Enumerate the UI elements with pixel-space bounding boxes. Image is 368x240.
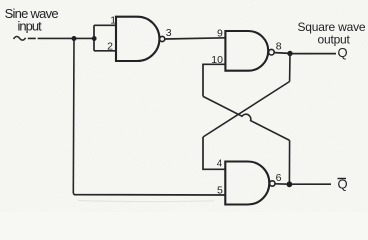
faint scan artifact line under bottom wire xyxy=(78,201,214,202)
U3 output bubble xyxy=(270,181,275,186)
NAND gate U3 xyxy=(225,162,269,205)
wire: pin 1 xyxy=(94,24,117,26)
NAND gate U2 xyxy=(225,31,268,71)
wire: U3 output to Qbar junction xyxy=(275,183,289,185)
wire: right vertical upper (from Q junction down) xyxy=(289,54,291,82)
svg-text:2: 2 xyxy=(107,40,113,52)
svg-text:9: 9 xyxy=(217,28,223,40)
svg-text:Q: Q xyxy=(338,45,348,60)
svg-text:5: 5 xyxy=(217,184,223,196)
wire: Qbar junction to Qbar label xyxy=(292,183,331,185)
wire: cross diagonal NE to SW xyxy=(203,82,290,138)
wire: right vertical lower (to Qbar junction) xyxy=(288,140,290,184)
sine wave source symbol xyxy=(14,37,26,41)
wire: left vertical lower to U3 pin 4 xyxy=(203,137,226,169)
wire: input bracket vertical xyxy=(93,25,95,51)
NAND gate U1 xyxy=(116,17,159,61)
U2 output bubble xyxy=(269,49,275,55)
wire: U2 pin 10 feedback (left vertical upper) xyxy=(203,64,226,96)
wire: input to bracket xyxy=(28,37,94,39)
wire: bottom horizontal to gate U3 pin 5 xyxy=(73,194,225,196)
U1 output bubble xyxy=(160,36,165,41)
svg-text:8: 8 xyxy=(276,41,282,53)
wire: pin 2 xyxy=(94,50,117,52)
wire: U2 output to Q junction xyxy=(274,52,290,55)
svg-text:input: input xyxy=(18,18,43,33)
node: input tap junction xyxy=(72,36,77,41)
svg-text:6: 6 xyxy=(276,172,282,184)
wire: cross diagonal NW to SE (with hop at crossing) xyxy=(203,96,290,140)
wire: Q junction to Q label xyxy=(292,53,336,55)
svg-text:3: 3 xyxy=(166,27,172,39)
node: Q junction xyxy=(287,51,292,56)
wire: long vertical down from input junction xyxy=(72,39,75,194)
svg-text:4: 4 xyxy=(217,158,223,169)
node: Qbar junction xyxy=(287,181,293,187)
node: bracket junction xyxy=(92,36,97,41)
wire: U1 output to U2 pin 9 xyxy=(165,38,226,39)
